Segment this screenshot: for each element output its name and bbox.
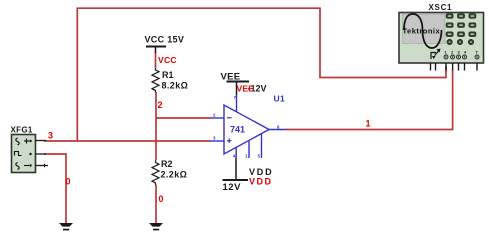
probe icon (431, 50, 440, 59)
wire net 2 vertical R1-R2 (155, 92, 157, 161)
svg-text:VCC: VCC (158, 55, 177, 65)
svg-text:2: 2 (213, 113, 216, 118)
ground (below XFG1 common) (59, 223, 73, 230)
svg-text:Tektronix: Tektronix (403, 27, 441, 36)
wire net 3 horizontal (XFG1 + to op-amp +) (44, 140, 211, 142)
scope pins (431, 63, 478, 71)
svg-text:2.2kΩ: 2.2kΩ (161, 170, 188, 180)
svg-text:3: 3 (213, 136, 216, 141)
scope screen (403, 15, 446, 44)
svg-text:VDD: VDD (249, 177, 273, 187)
svg-text:VEE: VEE (237, 84, 255, 94)
svg-text:U1: U1 (274, 94, 285, 104)
scope buttons (446, 14, 476, 37)
svg-text:2: 2 (158, 100, 163, 110)
oscilloscope XSC1 (399, 3, 484, 71)
pin number ticks (213, 95, 280, 159)
resistor R1 (152, 68, 159, 92)
op-amp +/- marks (227, 118, 232, 143)
function generator XFG1 (11, 126, 49, 173)
svg-text:1: 1 (245, 154, 248, 159)
wire XFG1 common to ground (44, 154, 66, 224)
op-amp U1 741 (211, 95, 286, 158)
VDD/12V power symbol (op-amp negative rail) (223, 158, 249, 180)
VEE power symbol (227, 82, 250, 96)
XFG1 waveform glyphs (15, 138, 45, 170)
resistor R2 (152, 161, 159, 185)
scope knobs (447, 39, 474, 45)
svg-text:1: 1 (366, 119, 371, 129)
svg-text:R2: R2 (161, 159, 173, 169)
svg-text:0: 0 (159, 194, 164, 204)
wire net 1 output to scope ch2 (286, 70, 453, 130)
wire VCC to R1 (155, 52, 157, 68)
scope terminals (444, 55, 479, 59)
svg-text:8.2kΩ: 8.2kΩ (162, 81, 189, 91)
svg-text:VDD: VDD (249, 167, 273, 177)
svg-text:741: 741 (230, 125, 245, 135)
scope sine logo (404, 14, 442, 48)
svg-text:R1: R1 (162, 70, 174, 80)
svg-text:5: 5 (258, 154, 261, 159)
svg-text:12V: 12V (223, 182, 242, 193)
svg-text:6: 6 (277, 125, 280, 130)
wire top loop (scope ch1 to input net 3) (77, 8, 446, 141)
ground (below R2) (149, 223, 163, 230)
VCC power symbol (146, 47, 166, 54)
svg-text:XSC1: XSC1 (429, 3, 453, 12)
svg-text:0: 0 (66, 177, 71, 187)
terminal labels (445, 50, 479, 55)
XFG1 pins (36, 141, 49, 166)
svg-text:VCC 15V: VCC 15V (145, 35, 185, 45)
wire R2 bottom to ground (155, 185, 157, 224)
svg-text:VEE: VEE (221, 72, 241, 83)
svg-text:XFG1: XFG1 (11, 126, 33, 135)
wire net 2 branch to op-amp - input (156, 117, 211, 119)
svg-text:3: 3 (48, 131, 53, 141)
